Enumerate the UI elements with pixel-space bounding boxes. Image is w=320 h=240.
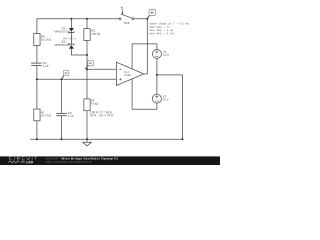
- resistor R1: [34, 109, 51, 121]
- zener diode D1: [55, 41, 75, 49]
- wire minus node down to R2: [86, 69, 88, 99]
- node minus input junction: [86, 68, 88, 70]
- zener diode D2: [55, 27, 75, 33]
- note gain calculation: [90, 111, 113, 116]
- node R3 top rail junction: [86, 18, 88, 20]
- wire rail to D2: [70, 19, 72, 28]
- switch SW8: [119, 7, 134, 24]
- probe bubble on minus input node: [85, 60, 93, 69]
- wire R2 to bottom rail: [86, 111, 88, 140]
- wire R4 to C4: [36, 45, 38, 63]
- wire V1 minus to supply midpoint: [156, 58, 158, 75]
- note simulation settings: [149, 23, 188, 35]
- node C3 ground junction: [60, 138, 62, 140]
- op-amp OA1: [116, 62, 143, 85]
- node R2 ground junction: [86, 138, 88, 140]
- wire minus input horizontal: [87, 68, 116, 70]
- wire C3 to bottom rail: [61, 116, 63, 140]
- resistor R3: [84, 29, 100, 41]
- voltage source V2: [152, 94, 168, 103]
- wire R1 to bottom rail: [36, 121, 38, 139]
- wire op-amp V+ stub to V1 plus: [132, 44, 157, 69]
- resistor R4: [34, 34, 51, 46]
- capacitor C3: [56, 112, 73, 117]
- node feedback corner junction: [146, 18, 148, 20]
- node diode branch merge: [86, 54, 88, 56]
- wire plus input horizontal: [37, 78, 117, 80]
- wire switch right terminal to feedback corner down to op-amp output: [134, 19, 147, 74]
- footer caption: [46, 157, 118, 163]
- wire between diodes: [70, 33, 72, 44]
- label VR = 2.7 V: [63, 38, 76, 40]
- wire D1 to R3 column: [71, 49, 87, 55]
- footer bar: [0, 156, 220, 165]
- node right rail ground junction: [181, 138, 183, 140]
- wire midpoint to V2 plus: [156, 75, 158, 94]
- voltage source V1: [152, 49, 169, 58]
- wire rail to R3: [86, 19, 88, 29]
- capacitor C4: [31, 62, 48, 67]
- ground: [83, 139, 92, 146]
- wire top rail output network node: [37, 19, 119, 34]
- wire op-amp V- stub to V2 minus: [132, 79, 157, 110]
- node supply midpoint junction: [156, 74, 158, 76]
- annotation bubble at feedback corner: [147, 10, 155, 19]
- node C3 tap junction: [60, 78, 62, 80]
- node R1 ground junction: [36, 138, 38, 140]
- node plus input left junction: [36, 78, 38, 80]
- wire plus node down to C3: [61, 79, 63, 113]
- wire C4 down through plus node to R1: [36, 65, 38, 109]
- probe bubble on plus input node: [62, 70, 69, 79]
- wire R3 to minus input node: [86, 40, 88, 69]
- node D2 top rail junction: [70, 18, 72, 20]
- resistor R2: [84, 99, 98, 111]
- CircuitLab logo: [8, 156, 37, 163]
- wire midpoint to right rail down to ground rail: [157, 75, 183, 139]
- wire bottom ground rail: [31, 138, 183, 140]
